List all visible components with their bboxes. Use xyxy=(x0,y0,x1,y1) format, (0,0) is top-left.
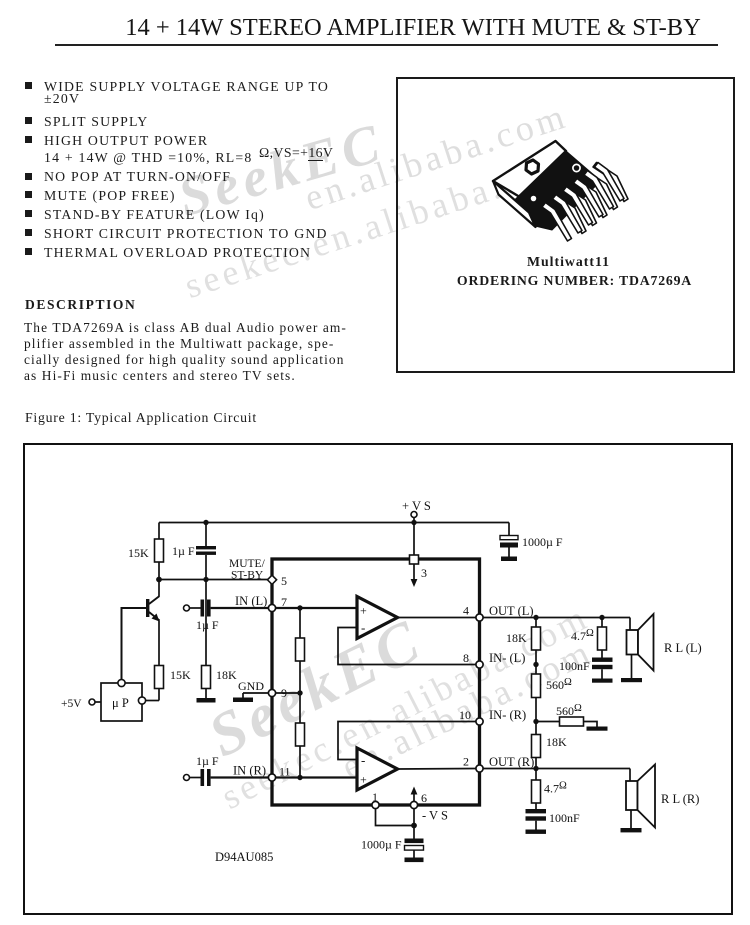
watermark alibaba url top line b xyxy=(180,141,580,307)
watermark SeekEC bottom xyxy=(198,605,435,772)
wire OUT(L) to speaker xyxy=(483,617,630,619)
wire op-amp B output to pin 2 xyxy=(398,768,477,771)
svg-text:3: 3 xyxy=(421,566,427,580)
capacitor 1000uF (-VS bypass) xyxy=(361,838,424,858)
feedback wire R (pin 10 to op-amp B inverting) xyxy=(338,722,476,760)
description xyxy=(25,297,136,313)
wire OUT(R) to speaker xyxy=(483,768,630,770)
package marker dot on front xyxy=(530,195,537,202)
resistor 18K (mute divider) xyxy=(202,580,238,699)
svg-text:560Ω: 560Ω xyxy=(556,703,582,718)
microprocessor uP box xyxy=(101,679,146,721)
wire +VS top rail xyxy=(159,522,509,524)
svg-text:IN (L): IN (L) xyxy=(235,594,267,608)
svg-text:8: 8 xyxy=(463,651,469,665)
svg-text:18K: 18K xyxy=(546,735,567,749)
svg-text:+: + xyxy=(360,773,367,787)
pin 4 OUT(L) xyxy=(463,604,534,622)
svg-text:1000µ F: 1000µ F xyxy=(361,838,402,852)
wire IN(L) to pin 7 xyxy=(211,607,268,609)
svg-text:μ P: μ P xyxy=(112,696,129,710)
package pins back row xyxy=(551,163,628,234)
wire rail to pin 3 xyxy=(413,523,415,556)
svg-text:4.7Ω: 4.7Ω xyxy=(571,628,594,643)
watermark alibaba url top line a xyxy=(300,94,573,219)
pin 10 IN-(R) xyxy=(459,708,526,725)
internal bias chain wire xyxy=(299,608,301,778)
circuit frame border xyxy=(24,444,732,914)
IC TDA7269A block outline xyxy=(272,559,480,805)
svg-text:GND: GND xyxy=(238,679,264,693)
svg-text:18K: 18K xyxy=(506,631,527,645)
junction OUT(L)/18K xyxy=(533,615,538,620)
resistor 560 (R to ground) horizontal xyxy=(536,703,597,727)
svg-text:1µ F: 1µ F xyxy=(196,754,219,768)
junction IN-(R) node xyxy=(533,719,538,724)
junction chain/pin7 xyxy=(297,605,302,610)
svg-text:4.7Ω: 4.7Ω xyxy=(544,781,567,796)
+VS terminal xyxy=(402,499,431,523)
junction -VS node xyxy=(411,823,417,829)
package marker dot on body xyxy=(573,164,580,171)
resistor 4.7 (L zobel) xyxy=(571,618,607,658)
ground (560 R) xyxy=(587,727,608,731)
svg-text:18K: 18K xyxy=(216,668,237,682)
wire IN(R) to pin 11 xyxy=(211,776,268,778)
GND pin 9 xyxy=(233,679,287,702)
svg-text:10: 10 xyxy=(459,708,471,722)
wire pin 9 to bias chain xyxy=(276,692,300,694)
svg-text:MUTE/: MUTE/ xyxy=(229,558,266,570)
svg-text:2: 2 xyxy=(463,755,469,769)
capacitor 1000uF (+VS bypass) xyxy=(500,535,563,557)
figure caption xyxy=(25,410,257,426)
ground (L zobel) xyxy=(592,679,613,683)
resistor 15K (mute RC to rail) xyxy=(128,523,164,580)
junction +VS rail xyxy=(411,520,416,525)
svg-text:R L (R): R L (R) xyxy=(661,792,699,806)
wire rail drop to 1000uF xyxy=(508,523,510,536)
svg-text:1µ F: 1µ F xyxy=(172,544,195,558)
op-amp B (right channel) xyxy=(357,748,398,790)
watermark alibaba url bottom line b xyxy=(214,596,596,818)
svg-text:OUT (L): OUT (L) xyxy=(489,604,534,618)
pin 1 xyxy=(372,790,379,809)
resistor internal (upper) xyxy=(296,638,305,661)
wire pin 6 to -VS node xyxy=(413,809,415,839)
pin 6 with arrow xyxy=(410,787,427,809)
pin 8 IN-(L) xyxy=(463,651,525,668)
svg-text:+5V: +5V xyxy=(61,698,82,710)
resistor internal (lower) xyxy=(296,723,305,746)
+5V terminal xyxy=(61,698,101,710)
svg-text:- V S: - V S xyxy=(422,809,448,823)
package front edge strip (white) xyxy=(493,181,536,227)
pin 11 IN(R) xyxy=(233,764,291,782)
svg-text:5: 5 xyxy=(281,574,287,588)
resistor 4.7 (R zobel) xyxy=(532,769,568,810)
junction chain/pin11 xyxy=(297,775,302,780)
pin 2 OUT(R) xyxy=(463,755,534,773)
feedback wire L (pin 8 to op-amp A inverting) xyxy=(338,628,476,665)
features list xyxy=(25,82,32,89)
input terminal IN(R) xyxy=(184,775,190,781)
svg-text:15K: 15K xyxy=(170,668,191,682)
svg-text:R L (L): R L (L) xyxy=(664,641,702,655)
svg-text:OUT (R): OUT (R) xyxy=(489,755,534,769)
capacitor 1uF (IN R coupling) xyxy=(190,754,219,786)
speaker RL(L) xyxy=(627,614,702,678)
pin 5 MUTE/ST-BY diamond xyxy=(229,558,287,588)
package plastic body (black top face + side) xyxy=(514,151,601,230)
capacitor 1uF (mute filter) xyxy=(172,523,216,580)
package tab mounting hole xyxy=(526,160,539,174)
title rule xyxy=(55,44,718,46)
capacitor 100nF (L zobel) xyxy=(559,658,613,679)
wire pin 11 to op-amp B xyxy=(276,776,357,778)
svg-text:+: + xyxy=(360,604,367,618)
title xyxy=(80,14,746,42)
svg-text:+ V S: + V S xyxy=(402,499,431,513)
junction IN-(L) node xyxy=(533,662,538,667)
package Multiwatt11 heatsink tab (white face) xyxy=(493,141,566,197)
speaker RL(R) xyxy=(626,765,699,829)
ground (R zobel) xyxy=(526,830,547,834)
ground (18K mute divider) xyxy=(197,698,216,703)
svg-text:-: - xyxy=(361,753,365,768)
ground (speaker L) xyxy=(621,678,642,682)
svg-text:1µ F: 1µ F xyxy=(196,618,219,632)
svg-text:4: 4 xyxy=(463,604,469,618)
junction 15K collector node xyxy=(156,577,162,583)
svg-text:15K: 15K xyxy=(128,546,149,560)
svg-text:ST-BY: ST-BY xyxy=(231,570,264,582)
transistor Q1 (NPN mute driver) xyxy=(146,580,160,666)
resistor 18K (R feedback) xyxy=(532,722,568,769)
wire MUTE/ST-BY line xyxy=(159,579,268,581)
svg-text:-: - xyxy=(361,620,365,635)
ground (+VS bypass) xyxy=(501,557,517,562)
svg-text:6: 6 xyxy=(421,791,427,805)
op-amp A (left channel) xyxy=(357,597,398,639)
pin 3 (+VS) square and arrow xyxy=(410,555,428,587)
resistor 18K (L feedback) xyxy=(506,618,541,665)
ground (speaker R) xyxy=(621,828,642,832)
svg-text:100nF: 100nF xyxy=(559,659,590,673)
resistor 560 (L feedback to IN-(R) node) xyxy=(532,665,573,722)
watermark alibaba url bottom line a xyxy=(335,630,600,788)
junction OUT(L)/4.7 xyxy=(599,615,604,620)
wire pin 7 to op-amp A xyxy=(276,607,357,609)
package box xyxy=(396,77,735,373)
junction 1uF mute node xyxy=(203,577,208,582)
wire pin 1 to -VS node xyxy=(376,809,415,826)
junction rail/1uF xyxy=(203,520,208,525)
svg-text:IN (R): IN (R) xyxy=(233,764,266,778)
svg-text:560Ω: 560Ω xyxy=(546,677,572,692)
svg-text:1000µ F: 1000µ F xyxy=(522,535,563,549)
junction chain/gnd xyxy=(297,690,302,695)
input terminal IN(L) xyxy=(184,605,190,611)
svg-text:100nF: 100nF xyxy=(549,811,580,825)
package pins front row xyxy=(542,163,624,242)
svg-text:1: 1 xyxy=(372,790,378,804)
capacitor 1uF (IN L coupling) xyxy=(190,600,219,633)
wire Q1 base to uP xyxy=(122,608,147,680)
resistor 15K (Q1 emitter) xyxy=(146,666,192,701)
pin 7 IN(L) xyxy=(235,594,287,612)
watermark SeekEC top xyxy=(171,110,391,229)
svg-text:IN- (R): IN- (R) xyxy=(489,708,526,722)
capacitor 100nF (R zobel) xyxy=(526,809,581,830)
wire op-amp A output to pin 4 xyxy=(398,617,477,619)
svg-text:D94AU085: D94AU085 xyxy=(215,850,273,864)
svg-text:IN- (L): IN- (L) xyxy=(489,651,525,665)
junction OUT(R)/18K xyxy=(533,766,538,771)
ground (-VS bypass) xyxy=(405,858,424,863)
